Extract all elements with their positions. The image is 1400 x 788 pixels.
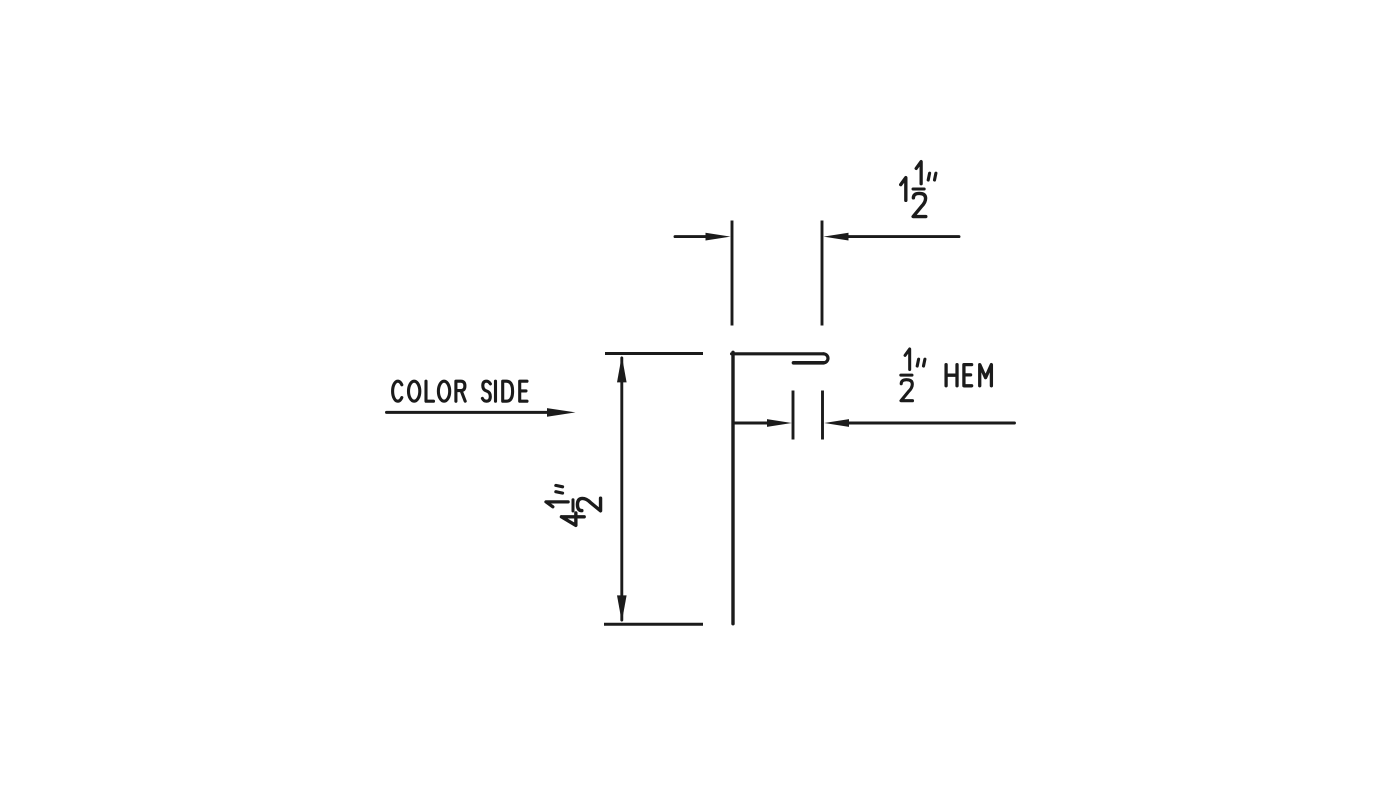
- vertical dimension bottom arrowhead: [617, 595, 627, 622]
- color side leader arrow line: [387, 411, 551, 414]
- label 1/2 inch HEM: [901, 349, 992, 401]
- profile hem return (1/2" hem): [794, 361, 824, 365]
- extension line left (top dimension): [731, 221, 734, 326]
- top dimension left arrow line: [675, 235, 707, 238]
- top dimension right arrow line: [849, 235, 960, 238]
- hem dimension right tick: [821, 391, 824, 440]
- hem dimension left arrowhead: [767, 419, 792, 427]
- top dimension right arrowhead: [824, 233, 849, 241]
- label 4-1/2 inch (vertical dimension, rotated): [546, 485, 601, 525]
- vertical dimension bottom extension line: [604, 623, 703, 626]
- hem dimension left arrow line: [733, 422, 770, 425]
- hem dimension right arrow line: [849, 422, 1015, 425]
- extension line right (top dimension): [821, 221, 824, 326]
- vertical dimension top arrowhead: [617, 356, 627, 383]
- label COLOR SIDE: [393, 381, 527, 401]
- vertical dimension line: [620, 358, 623, 620]
- vertical dimension top extension line: [605, 352, 703, 355]
- color side leader arrowhead: [547, 408, 576, 417]
- hem dimension left tick: [792, 391, 795, 440]
- top dimension left arrowhead: [706, 233, 731, 241]
- label 1-1/2 inch (top dimension): [901, 162, 936, 217]
- hem dimension right arrowhead: [824, 419, 849, 427]
- profile hem bend (180-degree hook): [824, 354, 829, 363]
- profile top leg (1-1/2"): [732, 352, 824, 355]
- profile vertical face (4-1/2" leg): [731, 352, 734, 623]
